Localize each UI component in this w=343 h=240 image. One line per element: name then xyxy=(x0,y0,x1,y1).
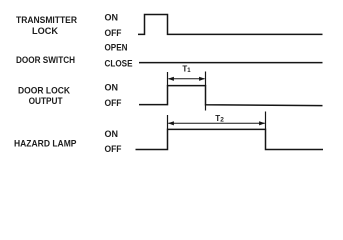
svg-text:OFF: OFF xyxy=(105,28,122,39)
wire T1 right extension line xyxy=(205,72,207,86)
svg-text:HAZARD LAMP: HAZARD LAMP xyxy=(14,139,77,150)
wire tick below OFF at door-lock falling edge xyxy=(205,105,207,111)
svg-text:DOOR LOCK: DOOR LOCK xyxy=(18,86,70,97)
svg-text:ON: ON xyxy=(105,129,119,140)
svg-text:DOOR SWITCH: DOOR SWITCH xyxy=(16,55,75,66)
wire door-switch close level xyxy=(139,62,323,64)
dimension arrow T2 xyxy=(168,121,265,125)
svg-text:LOCK: LOCK xyxy=(32,26,58,37)
svg-text:ON: ON xyxy=(105,13,119,24)
wire door-lock-output waveform pulse xyxy=(139,86,323,106)
svg-text:OUTPUT: OUTPUT xyxy=(29,96,63,107)
label DOOR LOCK OUTPUT xyxy=(18,86,70,108)
wire T2 left extension line xyxy=(167,115,169,129)
svg-text:ON: ON xyxy=(105,83,119,94)
svg-text:OFF: OFF xyxy=(105,144,122,155)
svg-text:CLOSE: CLOSE xyxy=(105,59,133,70)
svg-text:TRANSMITTER: TRANSMITTER xyxy=(16,15,77,26)
wire T1 left extension line xyxy=(167,72,169,86)
svg-text:OPEN: OPEN xyxy=(105,43,128,54)
wire T2 right extension line xyxy=(265,112,267,130)
svg-text:OFF: OFF xyxy=(105,98,122,109)
wire transmitter-lock waveform pulse xyxy=(138,15,323,35)
wire hazard-lamp waveform pulse xyxy=(136,129,324,149)
label TRANSMITTER LOCK xyxy=(16,15,77,37)
dimension arrow T1 xyxy=(168,77,205,81)
